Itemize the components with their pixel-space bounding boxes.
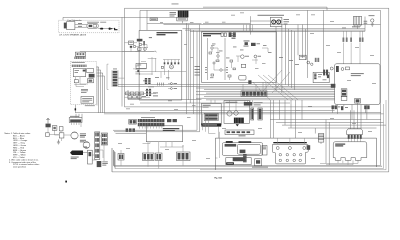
test points TP2 TP3	[168, 84, 171, 89]
transistor Q404	[307, 61, 310, 64]
terminal hole C2	[286, 159, 289, 162]
connector bar CN702	[251, 108, 254, 120]
label above	[369, 14, 375, 17]
ribbon cable	[243, 154, 247, 162]
connector strip CN801	[225, 144, 237, 147]
switch S601	[46, 133, 50, 137]
capacitor C302	[233, 32, 236, 37]
connector strip CN603	[72, 65, 87, 67]
transistor Q201	[139, 43, 142, 46]
wire: internal speaker wiring	[74, 77, 88, 87]
label: speaker pb	[226, 141, 233, 142]
wire: subwoofer feed line	[63, 17, 177, 106]
resistor R404	[216, 60, 219, 62]
pin labels left	[195, 65, 201, 68]
power conditioner block	[97, 161, 102, 167]
subwoofer jack box	[67, 22, 75, 30]
wire: left bottom risers	[112, 148, 115, 172]
inner chassis frame	[114, 10, 381, 165]
resistor R401	[241, 64, 245, 67]
wire: line-in internals	[135, 45, 156, 74]
resistor R501	[346, 67, 350, 70]
connector CN601	[75, 52, 85, 56]
label: ALR subwoofer amp assy	[87, 21, 99, 24]
wire: crt bottom drops	[243, 82, 266, 96]
wire: cluster to bottom rails	[92, 136, 104, 161]
component U801	[240, 150, 246, 154]
sub board box	[313, 72, 329, 82]
wire: amp to speaker	[98, 28, 114, 30]
terminal hole A3	[303, 147, 306, 150]
terminal hole C3	[293, 159, 296, 162]
arrow marker	[236, 124, 239, 126]
capacitor C201	[158, 83, 164, 86]
fuse F601	[88, 150, 93, 164]
module U401	[239, 75, 246, 80]
component blob	[327, 75, 329, 79]
component bit	[130, 46, 132, 48]
speaker icon LS101	[114, 28, 118, 30]
wire: section verticals	[270, 100, 329, 165]
outer chassis frame	[112, 8, 389, 172]
driver LS201	[169, 65, 173, 69]
line-in port board box	[139, 30, 182, 100]
mid frame bottom wire	[114, 151, 382, 167]
ribbon connector CN401	[241, 91, 267, 97]
wire: cluster links	[121, 142, 183, 169]
ferrite bead	[75, 108, 77, 110]
AM loop antenna T604	[71, 132, 78, 139]
capacitor C304	[346, 38, 348, 42]
wire: crt interior links	[212, 48, 268, 80]
wire: bus risers from cluster	[76, 114, 82, 118]
wire: AC secondary drops	[276, 25, 306, 94]
svg-text:wise specified.: wise specified.	[13, 167, 26, 169]
label: sheet number	[172, 3, 179, 6]
interlock connector CN102	[112, 70, 118, 87]
ground	[57, 140, 60, 145]
transistor Q409	[220, 69, 222, 71]
connector grid CN701	[204, 113, 218, 120]
caption: speaker assy	[85, 104, 95, 107]
label smudges lower box	[143, 80, 147, 83]
connector row CN704	[244, 102, 253, 106]
resistor R403	[209, 52, 212, 54]
vertical ladder connector CN901	[318, 134, 323, 143]
resistor R406	[230, 60, 233, 62]
label	[364, 20, 368, 23]
wire: row links	[124, 93, 150, 97]
wire: ladder tap	[118, 77, 124, 79]
wire: right lower horizontals	[270, 120, 386, 129]
connector bar CN703	[258, 108, 262, 120]
wire: upper-left links	[122, 43, 156, 52]
loopstick T605	[83, 142, 90, 149]
small label box	[150, 18, 158, 21]
components left of main pcb	[323, 70, 325, 76]
wire: speaker top feed	[80, 51, 140, 54]
capacitor bank C102	[145, 78, 147, 84]
wire: box internals vertical	[135, 58, 186, 78]
wire: transformer to bundle	[358, 17, 366, 32]
wire: diagonal routing	[253, 70, 298, 100]
wire: line-in lower links	[133, 57, 169, 94]
transistor Q408	[213, 62, 215, 64]
connector column CN606	[101, 133, 107, 145]
label: main pc assy	[351, 72, 364, 75]
speaker terminal plate	[273, 144, 309, 164]
component row: hanging caps	[163, 60, 180, 63]
wire: plate feeds	[278, 138, 305, 144]
terminal hole B3	[293, 153, 296, 156]
plate edge connector	[307, 145, 311, 150]
resistor R202	[143, 41, 145, 45]
wire: cluster links	[48, 127, 71, 141]
transistor Q406	[211, 47, 213, 49]
caps below main pcb	[332, 105, 334, 109]
pin label column	[232, 32, 236, 35]
wire: AC feed	[203, 16, 282, 34]
wire: upper horizontal bundle	[164, 25, 381, 32]
transistor Q402	[254, 55, 257, 58]
component bit dark	[137, 70, 139, 72]
dense connector row CN204	[138, 123, 165, 126]
label dashes crt	[212, 43, 216, 46]
frame right wire	[200, 100, 386, 170]
label block: AM loop	[80, 132, 86, 135]
tiny component box	[262, 146, 267, 156]
marker dot	[65, 181, 67, 183]
wire: caps to main pcb	[343, 31, 362, 64]
capacitor C301	[229, 32, 232, 37]
enclosure: L.H. and R.H. speaker jacks (dashed)	[59, 20, 120, 33]
transistor Q501	[341, 68, 344, 71]
letter board box	[146, 126, 182, 142]
transistor Q502	[330, 67, 333, 70]
resistor R407	[233, 68, 235, 70]
test point TP1	[149, 36, 152, 39]
crt main board box	[202, 32, 277, 82]
power transformer T301	[353, 16, 361, 25]
wire: comb feeds	[349, 139, 361, 142]
power transformer T201	[178, 11, 189, 18]
speaker pcb box	[222, 143, 262, 156]
wire: letter box to rails	[143, 142, 173, 147]
wire: crt pin wires	[208, 38, 225, 80]
component box A	[87, 69, 94, 73]
relay RY301	[244, 40, 250, 43]
wire: jack to amp	[75, 24, 87, 27]
wire: plug lead	[83, 152, 88, 154]
subwoofer amp module U101	[87, 24, 98, 29]
connector CN604	[69, 118, 82, 123]
connector CN501	[341, 89, 347, 97]
svg-text:Dual Subwoofer: Dual Subwoofer	[68, 20, 83, 22]
wire: speaker box outputs	[97, 67, 105, 113]
transistor Q202	[144, 48, 147, 51]
wire: connector pins down	[140, 126, 162, 128]
wire: transformer leads	[147, 11, 202, 31]
resistor R301	[221, 33, 223, 36]
label bar: phono	[201, 123, 221, 126]
AC power plug	[70, 151, 83, 156]
label: AC line	[258, 14, 285, 17]
terminal hole B2	[286, 153, 289, 156]
capacitor C305	[350, 38, 352, 42]
terminal hole C4	[299, 159, 302, 162]
svg-text:Fig. 104: Fig. 104	[215, 176, 223, 179]
small box with blob	[255, 159, 262, 166]
connector cluster A	[118, 154, 124, 161]
component block B	[89, 74, 95, 78]
AC interlock box	[270, 17, 282, 26]
amp stage box	[136, 63, 147, 68]
output transformer T701	[234, 118, 244, 124]
inner pcb outline	[237, 144, 260, 154]
comb connector CN902	[347, 129, 363, 135]
caption below	[252, 166, 268, 169]
lower pcb box	[226, 158, 251, 165]
wire: top margin feed	[203, 7, 327, 10]
terminal hole A1	[276, 147, 279, 150]
label dashes center	[289, 59, 293, 62]
transistor Q203	[133, 45, 136, 48]
connector cluster C	[156, 153, 163, 161]
label: line in port sub wfr	[157, 32, 178, 33]
label: letter board	[163, 128, 180, 129]
wire: left turns to bottom section	[203, 114, 220, 158]
wire: module leads	[320, 160, 358, 165]
resistor R201	[138, 48, 141, 51]
wire: right top drops	[308, 10, 324, 78]
component U501	[355, 99, 361, 104]
component box E	[59, 133, 64, 138]
capacitor C601	[52, 126, 57, 131]
label: speaker system assy	[72, 61, 85, 64]
resistor R302	[224, 33, 226, 36]
phono board box	[201, 104, 221, 125]
component box F	[129, 41, 134, 45]
connector block CN202	[129, 119, 137, 124]
blob on left edge	[331, 84, 336, 88]
label: crt main	[203, 33, 221, 34]
AC socket B	[277, 20, 281, 24]
wire: left bus segments	[75, 90, 383, 114]
connector strip	[314, 74, 316, 80]
svg-text:L.H. & R.H. SPEAKER JACKS: L.H. & R.H. SPEAKER JACKS	[59, 34, 87, 37]
flat connector box	[225, 130, 254, 135]
capacitor bank C103	[146, 89, 148, 96]
terminal hole A2	[288, 147, 291, 150]
wire: center vertical bundle	[186, 23, 199, 131]
capacitor C303	[343, 38, 345, 42]
rear speaker section box	[215, 138, 376, 170]
label: wire colors	[78, 22, 82, 25]
label block: dark text	[81, 88, 88, 91]
wire: main horizontal bus	[118, 84, 335, 86]
label: left of transformer	[170, 11, 177, 14]
connector strip CN602	[74, 57, 85, 59]
connector column CN605	[95, 132, 100, 160]
wire: main pcb drops	[333, 103, 367, 129]
resistor R601	[74, 80, 78, 83]
transistor Q405	[311, 63, 313, 65]
legend notes	[5, 132, 40, 169]
plug P101	[100, 28, 103, 30]
component row: resistor network	[126, 92, 130, 95]
transistor Q702	[234, 111, 238, 115]
connector CN201	[137, 39, 143, 42]
connector cluster B	[143, 153, 155, 161]
inner frame B	[115, 104, 384, 169]
transistor Q701	[227, 111, 232, 116]
connector cluster E	[126, 128, 129, 131]
main pc board box	[335, 64, 380, 105]
terminal hole B1	[279, 153, 282, 156]
AC socket A	[272, 20, 276, 24]
transistor Q407	[217, 55, 219, 57]
wire: bottom long rails	[113, 130, 200, 133]
jack J101	[109, 28, 111, 30]
resistor R203	[161, 66, 163, 68]
component box D	[59, 127, 63, 131]
resistor pack R402	[315, 58, 317, 62]
resistor R405	[211, 74, 214, 76]
resistor R408	[228, 75, 231, 77]
audio power module U901	[333, 142, 367, 161]
label: audio module	[335, 144, 345, 145]
label dashes	[153, 92, 158, 95]
wire: speaker down lead	[74, 105, 76, 113]
connector cluster D	[177, 152, 191, 161]
connector CN101	[64, 23, 67, 29]
label: speaker terminal plate	[273, 142, 307, 143]
fuse block F301	[251, 43, 256, 46]
cable channel	[97, 64, 109, 105]
component block C	[88, 79, 94, 83]
transistor Q401	[241, 55, 245, 59]
connector pair CN205	[167, 119, 171, 122]
ground	[371, 24, 374, 26]
label: wire color tags	[118, 13, 376, 159]
enclosure: speaker system assy (dashed)	[71, 61, 97, 104]
label above section	[239, 134, 246, 137]
terminal hole B4	[299, 153, 302, 156]
balun T603	[46, 124, 51, 128]
label box: transformer	[177, 18, 187, 21]
pwb label	[226, 162, 234, 164]
crossover network box	[73, 69, 85, 77]
terminal hole C1	[279, 159, 282, 162]
block U802	[233, 157, 246, 161]
dense connector row CN203	[141, 116, 155, 119]
transistor Q403	[248, 80, 251, 84]
wire: crt top feeds	[244, 25, 253, 32]
connector strip	[336, 66, 339, 72]
capacitor C306	[359, 38, 361, 42]
caution label box	[81, 97, 94, 104]
antenna ANT601	[46, 118, 50, 123]
transistor Q301	[371, 19, 374, 22]
capacitor C307	[362, 38, 364, 42]
regulator box U402	[299, 55, 306, 59]
main frame board box	[224, 101, 249, 124]
wire: center drops	[211, 100, 252, 111]
